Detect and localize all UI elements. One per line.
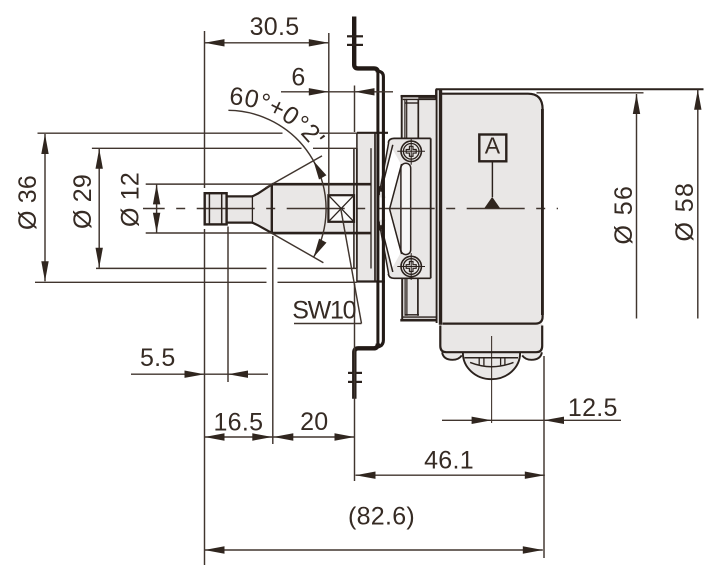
svg-text:6: 6 — [291, 64, 305, 92]
svg-text:5.5: 5.5 — [140, 344, 176, 372]
svg-text:SW10: SW10 — [292, 297, 355, 325]
svg-text:46.1: 46.1 — [424, 447, 474, 475]
svg-text:Ø 56: Ø 56 — [610, 185, 638, 245]
svg-text:Ø 12: Ø 12 — [117, 172, 145, 227]
svg-text:16.5: 16.5 — [213, 408, 263, 436]
svg-text:Ø 36: Ø 36 — [14, 175, 42, 230]
svg-text:Ø 29: Ø 29 — [69, 174, 97, 229]
svg-text:(82.6): (82.6) — [348, 503, 415, 531]
svg-text:A: A — [485, 133, 501, 159]
svg-text:20: 20 — [300, 408, 328, 436]
svg-text:12.5: 12.5 — [568, 394, 618, 422]
svg-text:30.5: 30.5 — [250, 13, 300, 41]
svg-text:Ø 58: Ø 58 — [671, 182, 699, 242]
